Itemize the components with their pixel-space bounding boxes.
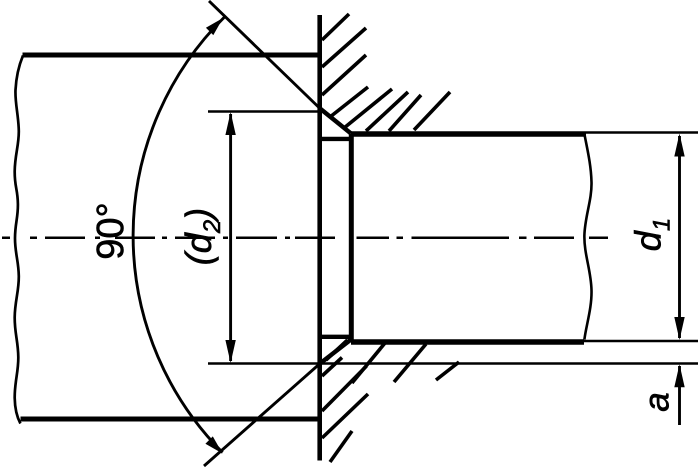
hatch workpiece bottom [322, 340, 459, 462]
arrowhead (d2) bottom [225, 340, 235, 363]
chamfer extension line bottom (thin, for angle dim) [204, 364, 320, 467]
pilot upper edge (short line wall to shoulder) [321, 137, 353, 141]
wavy break line left edge of tool body [15, 56, 23, 424]
svg-text:(d2): (d2) [178, 208, 226, 265]
arrowhead a (pointing up) [674, 364, 684, 387]
extension line top of (d2) [208, 110, 319, 113]
dimension leader a (below) [678, 366, 681, 425]
wavy break line right end of hole [584, 135, 591, 340]
shared extension line bottom of (d2) and a [208, 362, 698, 365]
tool body bottom outline [21, 417, 323, 422]
centerline (dash-dot axis) [2, 237, 608, 240]
hole upper wall d1 (thick) [351, 131, 586, 137]
dimension line (d2) [229, 114, 232, 361]
svg-text:a: a [638, 392, 677, 411]
pilot shoulder (vertical line at hole mouth) [349, 134, 354, 340]
hole upper wall extension (thin, to d1 arrow) [586, 131, 698, 134]
dimension line d1 [678, 136, 681, 338]
hole lower wall d1 (thick) [351, 339, 584, 345]
arrowhead of angle arc top [206, 18, 223, 35]
90-degree dimension arc [133, 17, 224, 453]
svg-text:90°: 90° [90, 202, 132, 259]
chamfer extension line top (thin, for angle dim) [209, 1, 320, 109]
arrowhead d1 bottom [674, 317, 684, 340]
pilot lower edge (short line wall to shoulder) [321, 335, 353, 339]
tool body top outline [23, 53, 323, 58]
hole lower wall extension (thin, to d1/a arrows) [584, 340, 698, 343]
arrowhead d1 top [674, 134, 684, 157]
hatch workpiece top [322, 14, 450, 131]
workpiece face (vertical wall line) [317, 15, 322, 461]
countersink chamfer edge, bottom (thick) [320, 340, 351, 364]
arrowhead (d2) top [225, 112, 235, 135]
countersink chamfer edge, top (thick) [320, 109, 351, 134]
arrowhead of angle arc bottom [205, 436, 222, 453]
